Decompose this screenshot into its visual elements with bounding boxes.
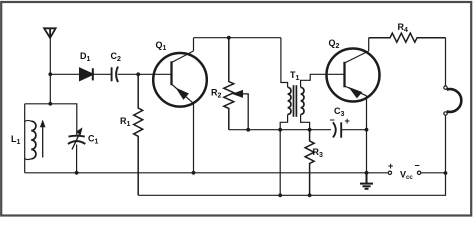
transformer T1 <box>288 85 304 117</box>
node top rail / R2 <box>227 36 231 40</box>
antenna <box>44 28 56 38</box>
node T1 primary bottom <box>278 128 282 132</box>
node C2/R1/Q1 junction <box>136 72 140 76</box>
wire T1 secondary bottom jog <box>301 115 310 130</box>
resistor R2 (rheostat) <box>224 38 234 130</box>
node earphone / Vcc minus <box>444 171 448 175</box>
capacitor C1 (variable) <box>68 136 85 144</box>
transistor Q2 <box>327 49 380 102</box>
node R3 top / T1 secondary bottom <box>308 128 312 132</box>
C1 arrow <box>72 133 80 150</box>
wire Q2 collector riser <box>368 38 370 51</box>
wire D1 to C2 <box>93 73 112 75</box>
earphone jack terminals <box>444 86 447 89</box>
wire node line (R2 bottom to C3) <box>229 129 331 131</box>
L1 adjust arrow <box>42 125 44 158</box>
wire T1 primary bottom jog <box>280 115 287 130</box>
ground rail A <box>25 172 388 174</box>
terminal Vcc plus <box>388 171 391 174</box>
svg-text:−: − <box>330 115 335 125</box>
wire C1 bottom <box>76 145 78 173</box>
wire antenna stem <box>49 38 51 104</box>
svg-text:−: − <box>415 161 420 171</box>
inductor L1 <box>25 120 36 159</box>
wire antenna to D1 <box>50 73 80 75</box>
resistor R1 <box>134 74 143 195</box>
wire R2 wiper arm <box>242 94 249 130</box>
wire T1 primary bottom to bottom rail <box>279 130 281 196</box>
earphone element <box>447 89 462 112</box>
resistor R3 <box>305 130 314 196</box>
capacitor C3 <box>333 122 341 137</box>
wire C3 to Q2 emitter line <box>341 129 366 131</box>
node antenna/detector junction <box>48 72 52 76</box>
node Q1 emitter / rail <box>192 171 196 175</box>
terminal Vcc minus <box>417 171 420 174</box>
op... transistor Q1 <box>153 51 207 107</box>
ground symbol <box>360 173 373 189</box>
wire Q1 collector riser <box>193 38 195 51</box>
wire earphone to bottom rail <box>138 116 445 196</box>
wire Vcc minus to earphone line <box>421 172 445 174</box>
resistor R4 <box>369 33 446 42</box>
node R3 bottom / rail <box>308 193 312 197</box>
wire Q2 emitter down <box>366 96 368 173</box>
node ground / Q2 emitter <box>365 171 369 175</box>
node C3 / Q2 emitter <box>365 128 369 132</box>
wire C2 to Q1 base <box>118 73 172 75</box>
wire Q1 emitter to ground rail <box>193 103 195 172</box>
node C1 / rail <box>75 171 79 175</box>
wire T1 primary top to top rail <box>281 38 288 88</box>
wire R4 to earphone <box>445 38 447 86</box>
tank top wire <box>25 104 77 136</box>
node R2 wiper / node line <box>246 128 250 132</box>
node bottom rail / T1 <box>278 193 282 197</box>
capacitor C2 <box>112 67 118 83</box>
diode D1 <box>80 68 93 80</box>
wire top rail Q1 to T1 <box>194 37 281 39</box>
svg-text:+: + <box>345 116 350 126</box>
wire T1 secondary top to Q2 base <box>301 74 345 87</box>
node antenna tap <box>48 102 52 106</box>
wire tank left side <box>24 104 26 173</box>
svg-text:+: + <box>388 161 393 171</box>
